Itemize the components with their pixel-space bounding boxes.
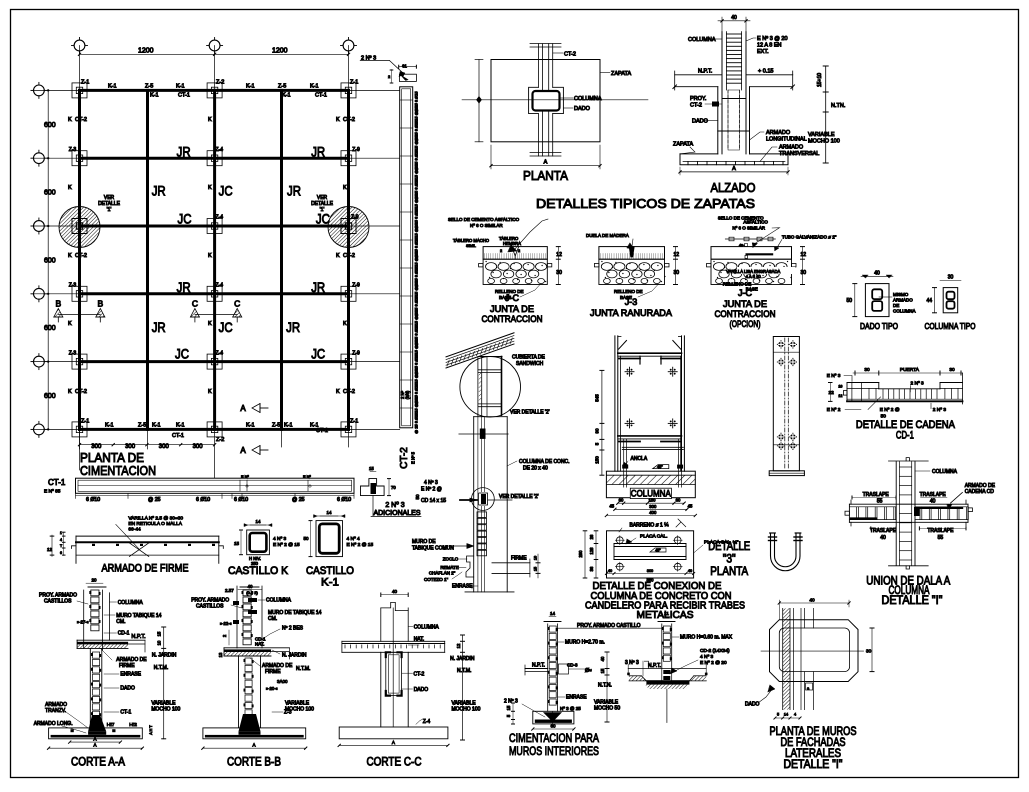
svg-text:Nº 6 O SIMILAR: Nº 6 O SIMILAR <box>470 223 503 228</box>
detalle3 bolt holes <box>616 537 623 544</box>
svg-text:15: 15 <box>506 705 511 710</box>
svg-text:Nº 2 BES: Nº 2 BES <box>282 626 304 632</box>
T-block 2 N3 adicionales <box>361 479 385 496</box>
svg-text:DADO: DADO <box>692 119 709 125</box>
tall column star bolts <box>778 342 783 347</box>
svg-text:Z-5: Z-5 <box>138 423 146 429</box>
svg-text:55: 55 <box>877 499 883 505</box>
svg-text:E Nº 2 @ 15: E Nº 2 @ 15 <box>273 542 300 548</box>
svg-text:30: 30 <box>948 275 954 281</box>
svg-text:CT-2: CT-2 <box>414 671 425 677</box>
octagon wall strips vertical <box>783 608 790 709</box>
svg-text:1: 1 <box>60 531 62 535</box>
svg-text:400: 400 <box>649 510 657 515</box>
union end hooks <box>848 504 850 522</box>
svg-text:K: K <box>208 117 212 123</box>
svg-text:40: 40 <box>688 569 692 573</box>
svg-text:N.T.M.: N.T.M. <box>154 665 168 671</box>
svg-text:Ø≈: Ø≈ <box>585 668 592 674</box>
svg-text:CT-2: CT-2 <box>75 389 87 395</box>
svg-text:40: 40 <box>930 499 936 505</box>
junta slab top concrete band <box>483 247 547 260</box>
svg-text:K: K <box>68 185 72 191</box>
svg-text:Nº 3 @ 25: Nº 3 @ 25 <box>560 706 581 711</box>
svg-text:DADO: DADO <box>414 687 429 693</box>
svg-text:TRANSVERSAL: TRANSVERSAL <box>779 151 819 157</box>
svg-text:COLUMNA: COLUMNA <box>414 624 440 630</box>
firme slab right of column <box>492 562 530 564</box>
zoclo step shapes at column base <box>466 556 474 577</box>
svg-text:N. JARDIN: N. JARDIN <box>450 656 475 662</box>
svg-text:JC: JC <box>175 346 189 362</box>
svg-text:2: 2 <box>518 249 520 253</box>
svg-text:4: 4 <box>794 713 796 717</box>
svg-text:15: 15 <box>600 668 605 673</box>
svg-text:4⇤: 4⇤ <box>739 244 745 248</box>
svg-text:30: 30 <box>864 367 870 373</box>
svg-text:DADO: DADO <box>745 702 760 708</box>
svg-text:12: 12 <box>556 252 562 258</box>
svg-text:VARILLA Nº 2.5 @ 30=30: VARILLA Nº 2.5 @ 30=30 <box>128 516 183 522</box>
svg-text:14: 14 <box>255 519 261 524</box>
svg-text:CD-3: CD-3 <box>567 663 578 668</box>
svg-text:FIRME: FIRME <box>511 556 527 562</box>
svg-text:DUELA DE MADERA: DUELA DE MADERA <box>586 233 629 238</box>
svg-text:Z-9: Z-9 <box>351 215 359 221</box>
svg-text:40: 40 <box>731 15 737 21</box>
svg-text:12: 12 <box>674 252 680 258</box>
cadena bottom chords <box>847 398 963 400</box>
cimentacion bottom dim 60 <box>533 728 574 730</box>
svg-text:CD-2 (14X34): CD-2 (14X34) <box>700 648 730 654</box>
candelero plate inner verticals <box>620 356 622 471</box>
svg-text:⇤20⇥: ⇤20⇥ <box>266 686 278 691</box>
left dimension line 600 x5 <box>47 90 49 429</box>
svg-text:CIMENTACION PARA: CIMENTACION PARA <box>509 731 599 745</box>
candelero bottom dims <box>618 502 684 504</box>
corte C-C floor slab <box>342 640 445 642</box>
svg-text:E Nº: E Nº <box>303 475 311 479</box>
zapata plan labels <box>553 52 563 54</box>
svg-text:CT-2: CT-2 <box>690 103 702 109</box>
svg-text:30: 30 <box>949 367 955 373</box>
svg-text:@ 25: @ 25 <box>148 497 161 503</box>
corte B-B floor slab <box>224 647 289 649</box>
svg-text:61: 61 <box>402 64 407 69</box>
svg-text:C: C <box>234 299 240 309</box>
svg-text:EN RETICULA O MALLA: EN RETICULA O MALLA <box>128 521 182 527</box>
svg-text:DE: DE <box>893 303 899 308</box>
CT-1 beam long section <box>76 478 355 493</box>
corte C-C footing <box>339 727 448 739</box>
svg-text:6 Ø10: 6 Ø10 <box>86 497 100 503</box>
svg-text:CT-2: CT-2 <box>343 389 355 395</box>
svg-text:128: 128 <box>589 547 594 555</box>
steel post rungs <box>478 369 502 371</box>
svg-text:40: 40 <box>809 598 815 604</box>
svg-text:K-1: K-1 <box>105 423 114 429</box>
svg-text:Z-4: Z-4 <box>216 147 224 153</box>
svg-text:COLUMNA: COLUMNA <box>932 469 958 475</box>
junta slab top concrete band <box>599 247 665 260</box>
svg-text:MISMO: MISMO <box>893 292 909 297</box>
svg-text:CASTILLO K: CASTILLO K <box>228 565 289 577</box>
svg-text:PLACA CAL.: PLACA CAL. <box>640 534 667 540</box>
svg-text:N.T.N.: N.T.N. <box>598 683 612 689</box>
proy armado castillo connector <box>558 627 662 629</box>
svg-text:K-1: K-1 <box>152 423 161 429</box>
svg-text:12: 12 <box>838 394 842 398</box>
svg-text:⇤27⇥: ⇤27⇥ <box>77 620 89 625</box>
svg-text:4 Nº 3: 4 Nº 3 <box>700 654 714 660</box>
svg-text:12 A 8 EN: 12 A 8 EN <box>757 43 781 49</box>
junta V notch <box>512 247 519 256</box>
svg-text:I-E2: I-E2 <box>129 722 137 727</box>
svg-text:600: 600 <box>44 325 56 332</box>
svg-text:600: 600 <box>44 257 56 264</box>
svg-text:JC: JC <box>311 346 325 362</box>
main concrete column verticals <box>473 417 475 592</box>
cadena beam body <box>879 388 940 390</box>
junta gravel band <box>599 259 665 284</box>
svg-text:DADO: DADO <box>120 686 135 692</box>
svg-text:300: 300 <box>91 444 102 450</box>
svg-text:4 A 8 40: 4 A 8 40 <box>746 274 762 279</box>
svg-text:E Nº 5: E Nº 5 <box>411 451 416 464</box>
svg-text:ARMADO LONG.: ARMADO LONG. <box>34 721 73 727</box>
trench centerline <box>666 689 668 723</box>
svg-text:JR: JR <box>177 143 191 159</box>
svg-text:K: K <box>208 389 212 395</box>
svg-text:E Nº 2 @ 15: E Nº 2 @ 15 <box>347 542 374 548</box>
svg-text:60: 60 <box>550 724 556 729</box>
svg-text:22: 22 <box>829 390 835 396</box>
svg-text:MURO H=2.70 m.: MURO H=2.70 m. <box>565 640 605 646</box>
detalle3 left dims <box>595 531 597 578</box>
svg-text:CT-1: CT-1 <box>316 428 328 434</box>
svg-text:PLANTA DE: PLANTA DE <box>80 451 144 465</box>
svg-text:300: 300 <box>649 504 657 509</box>
svg-text:290: 290 <box>578 550 583 558</box>
svg-text:JR: JR <box>152 183 166 199</box>
junta right dims 12 and 30 <box>802 247 804 285</box>
svg-text:CT-2: CT-2 <box>399 447 410 469</box>
tall column body <box>773 337 799 471</box>
svg-text:4: 4 <box>60 538 62 542</box>
junta right dims 12 and 30 <box>557 247 559 285</box>
svg-text:K-1: K-1 <box>282 93 291 99</box>
junta galvanized tube bar <box>747 253 773 255</box>
svg-text:K: K <box>343 185 347 191</box>
armado de firme slab <box>76 535 219 537</box>
corte B-B footing <box>203 728 306 739</box>
octagon dado outline <box>770 620 859 682</box>
ver detalle 2 circle small <box>472 488 495 511</box>
svg-text:ARMADO DE FIRME: ARMADO DE FIRME <box>102 563 189 575</box>
svg-text:Z-4: Z-4 <box>216 350 224 356</box>
svg-text:Z-4: Z-4 <box>423 719 431 725</box>
junta dowel stubs <box>479 264 484 267</box>
svg-text:2 Nº 3: 2 Nº 3 <box>385 502 404 509</box>
svg-text:VARIABLE: VARIABLE <box>151 701 176 707</box>
svg-text:40: 40 <box>874 271 880 277</box>
svg-text:A: A <box>93 737 96 742</box>
svg-text:3A00: 3A00 <box>277 679 288 684</box>
svg-text:60: 60 <box>619 498 624 503</box>
junta wood strip <box>629 247 634 257</box>
svg-text:600: 600 <box>44 393 56 400</box>
svg-text:DETALLE: DETALLE <box>708 541 750 553</box>
svg-text:VARIABLE: VARIABLE <box>808 132 835 138</box>
corte A-A pedestal <box>89 648 91 727</box>
junta3 mesh symbol line <box>725 238 775 240</box>
svg-text:K-1: K-1 <box>150 93 159 99</box>
octagon right dim 30 <box>871 628 873 672</box>
candelero bolt crosses lower <box>625 422 634 424</box>
svg-text:3 Nº 3: 3 Nº 3 <box>625 660 639 666</box>
svg-text:40: 40 <box>608 569 612 573</box>
detalle3 bottom dims <box>607 573 694 575</box>
svg-text:DADO: DADO <box>574 106 591 112</box>
svg-text:FIRME: FIRME <box>265 669 281 675</box>
svg-text:CT-1: CT-1 <box>120 710 131 716</box>
detalle3 I beam plan <box>614 543 686 545</box>
svg-text:EXT.: EXT. <box>757 49 769 55</box>
candelero base block <box>606 471 695 498</box>
svg-text:36: 36 <box>589 566 594 571</box>
svg-text:J-C: J-C <box>505 293 519 303</box>
svg-text:K-1: K-1 <box>284 423 293 429</box>
zapata plan outer square <box>491 60 600 142</box>
svg-text:COLUMNA: COLUMNA <box>118 600 144 606</box>
svg-text:6 Ø10: 6 Ø10 <box>234 497 248 503</box>
cimentacion npt slab stub <box>525 668 548 670</box>
svg-text:COLUMNA TIPO: COLUMNA TIPO <box>925 321 976 331</box>
muro exterior trench detail castillo <box>661 624 663 669</box>
svg-text:SIMIL: SIMIL <box>466 244 476 248</box>
svg-text:Z-2: Z-2 <box>216 437 224 443</box>
cadena left jamb block <box>846 383 848 402</box>
union dala stirrups <box>856 507 858 520</box>
svg-text:44: 44 <box>926 298 932 304</box>
zapata plan left dimension <box>478 60 480 142</box>
svg-text:MOCHO 100: MOCHO 100 <box>808 139 840 145</box>
svg-text:ANCLA: ANCLA <box>631 456 648 462</box>
zapata plan bottom dimension A <box>491 165 600 167</box>
svg-text:N.T.M.: N.T.M. <box>457 668 471 674</box>
svg-text:MOCHO 50: MOCHO 50 <box>594 706 620 712</box>
svg-text:A H T: A H T <box>149 725 153 735</box>
svg-text:90: 90 <box>595 428 600 434</box>
svg-text:30: 30 <box>674 270 680 276</box>
union column end caps <box>889 460 929 462</box>
roof cubierta sloped lines <box>446 344 514 368</box>
octagon inner rounded rect <box>779 628 849 672</box>
armado firme X cross <box>129 543 148 557</box>
svg-text:K: K <box>208 321 212 327</box>
svg-text:N.P.T.: N.P.T. <box>698 69 713 75</box>
alzado column verticals <box>721 32 723 154</box>
svg-text:CUBIERTA DE: CUBIERTA DE <box>512 355 546 361</box>
svg-text:Z-4: Z-4 <box>216 283 224 289</box>
svg-text:4 Nº 3: 4 Nº 3 <box>273 536 287 542</box>
dado tipo section <box>865 284 889 317</box>
svg-text:45°: 45° <box>655 549 661 553</box>
svg-text:E Nº 2 @ 20: E Nº 2 @ 20 <box>700 660 727 666</box>
svg-text:COLUMNA: COLUMNA <box>893 309 916 314</box>
svg-text:JC: JC <box>219 319 233 335</box>
corte B-B wall and castillo <box>236 586 238 648</box>
candelero top angle stubs <box>619 358 641 360</box>
candelero top band <box>618 352 682 354</box>
svg-text:13: 13 <box>218 652 223 657</box>
svg-text:REMATE: REMATE <box>440 565 458 570</box>
svg-text:K-1: K-1 <box>176 84 185 90</box>
column cap line <box>474 416 508 418</box>
svg-text:TRASLAPE: TRASLAPE <box>870 528 897 534</box>
svg-text:30: 30 <box>556 270 562 276</box>
svg-text:K: K <box>68 321 72 327</box>
svg-text:ZOCLO: ZOCLO <box>443 557 459 562</box>
svg-text:MUROS INTERIORES: MUROS INTERIORES <box>509 744 599 758</box>
candelero lower bands <box>618 435 682 437</box>
junta slab top concrete band <box>711 247 792 260</box>
svg-text:VER DETALLE '2': VER DETALLE '2' <box>510 410 550 416</box>
svg-text:10: 10 <box>534 556 538 560</box>
svg-text:A: A <box>240 404 246 413</box>
alzado column stirrup rungs <box>727 33 742 35</box>
svg-text:ZAPATA: ZAPATA <box>673 142 694 148</box>
alzado zapata footing <box>680 154 788 165</box>
corte A-A footing <box>49 728 143 739</box>
svg-text:2 Nº 3: 2 Nº 3 <box>933 407 947 413</box>
svg-text:MURO DE: MURO DE <box>412 539 436 545</box>
cimentacion left dims <box>512 703 514 724</box>
svg-text:ASFALTICO: ASFALTICO <box>743 220 768 225</box>
svg-text:600: 600 <box>44 122 56 129</box>
svg-text:MOCHO 100: MOCHO 100 <box>151 707 180 713</box>
svg-text:JR: JR <box>287 183 301 199</box>
svg-text:14: 14 <box>550 611 556 616</box>
svg-text:50: 50 <box>303 536 309 541</box>
svg-text:Z-5: Z-5 <box>272 423 280 429</box>
foundation plan grid axis extension lines <box>32 46 400 479</box>
column inner reinforcement lines <box>477 417 479 592</box>
svg-text:CD-1: CD-1 <box>118 631 130 637</box>
trench excavation profile <box>629 675 641 677</box>
candelero post top flares <box>619 341 627 350</box>
svg-text:Z-3: Z-3 <box>69 147 77 153</box>
corte B-B pedestal <box>238 656 240 727</box>
svg-text:10: 10 <box>157 640 162 645</box>
upper clamp black detail <box>480 429 486 439</box>
svg-text:K-1: K-1 <box>246 84 255 90</box>
svg-text:+ 0.15: + 0.15 <box>758 69 773 75</box>
svg-text:JR: JR <box>177 279 191 295</box>
CT-2 strip cross ticks <box>400 99 413 101</box>
svg-text:CT-2: CT-2 <box>343 117 355 123</box>
svg-text:N. JARDIN: N. JARDIN <box>282 653 307 659</box>
alzado bottom dim A <box>680 171 788 173</box>
svg-text:BARRENO ø 1 ¼: BARRENO ø 1 ¼ <box>630 523 670 529</box>
svg-text:Z-1: Z-1 <box>350 419 358 425</box>
svg-text:DE 20 x 40: DE 20 x 40 <box>523 466 548 472</box>
corte A-A castillo ladder top <box>86 582 103 584</box>
svg-text:CT-1: CT-1 <box>315 93 327 99</box>
svg-text:C: C <box>192 299 198 309</box>
svg-text:11: 11 <box>664 611 669 616</box>
svg-text:Z-4: Z-4 <box>216 215 224 221</box>
junta dowel stubs <box>707 264 712 267</box>
svg-text:20: 20 <box>91 578 97 583</box>
svg-text:14: 14 <box>784 713 788 717</box>
svg-text:6: 6 <box>60 551 62 555</box>
svg-text:MURO H=0.60 m. MAX: MURO H=0.60 m. MAX <box>680 635 733 641</box>
svg-text:45°: 45° <box>657 465 663 469</box>
top dimension line 1200 + 1200 <box>80 53 349 55</box>
steel post verticals above column <box>477 358 479 417</box>
svg-text:J-3: J-3 <box>625 297 638 307</box>
svg-text:TRASLAPE: TRASLAPE <box>863 492 890 498</box>
corte C-C column <box>380 608 382 641</box>
zapata plan columna thick rect <box>533 91 560 111</box>
svg-text:HEMBRA: HEMBRA <box>503 241 521 246</box>
svg-text:A: A <box>93 743 96 748</box>
armado firme left dims <box>51 535 53 556</box>
svg-text:K-1: K-1 <box>310 84 319 90</box>
svg-text:12: 12 <box>47 547 53 552</box>
candelero COLUMNA title box <box>630 488 671 498</box>
castillo K-1 section <box>316 521 343 557</box>
svg-text:300: 300 <box>647 569 653 573</box>
svg-text:A: A <box>392 740 395 745</box>
columna tipo section <box>943 288 958 313</box>
svg-text:VARIABLE: VARIABLE <box>285 701 310 707</box>
svg-text:JC: JC <box>178 211 192 227</box>
svg-text:E Nº 3: E Nº 3 <box>827 373 841 379</box>
svg-text:NAT.: NAT. <box>414 637 424 643</box>
zapata plan dado box <box>529 87 539 113</box>
zapata footing squares at grid intersections <box>72 83 87 98</box>
union column verticals <box>895 462 897 566</box>
svg-text:Z-9: Z-9 <box>352 350 360 356</box>
svg-text:50: 50 <box>415 494 420 500</box>
svg-text:E Nº 2 @: E Nº 2 @ <box>421 487 442 493</box>
svg-text:A: A <box>240 446 246 455</box>
bottom 300 dimension chain <box>80 444 215 446</box>
svg-text:30: 30 <box>801 270 807 276</box>
candelero channel posts <box>614 336 616 471</box>
corte C-C right dim chain <box>462 635 464 740</box>
svg-text:CT-1: CT-1 <box>172 433 184 439</box>
svg-text:CD-1: CD-1 <box>896 430 914 442</box>
svg-text:ENRASE: ENRASE <box>120 672 141 678</box>
cadena dim line above <box>853 372 963 374</box>
alzado dado <box>717 87 719 154</box>
svg-text:30: 30 <box>866 649 872 655</box>
svg-text:40: 40 <box>600 656 605 661</box>
svg-text:"3": "3" <box>723 553 736 565</box>
octagon bottom dims <box>775 717 800 719</box>
cimentacion footing <box>533 711 574 724</box>
svg-text:CM.: CM. <box>268 616 277 622</box>
svg-text:K-1: K-1 <box>176 423 185 429</box>
svg-text:K: K <box>68 389 72 395</box>
svg-text:COTEZO 1": COTEZO 1" <box>424 577 449 582</box>
svg-text:14: 14 <box>326 510 332 515</box>
svg-text:K: K <box>208 253 212 259</box>
svg-text:2 Nº 3: 2 Nº 3 <box>911 381 925 387</box>
